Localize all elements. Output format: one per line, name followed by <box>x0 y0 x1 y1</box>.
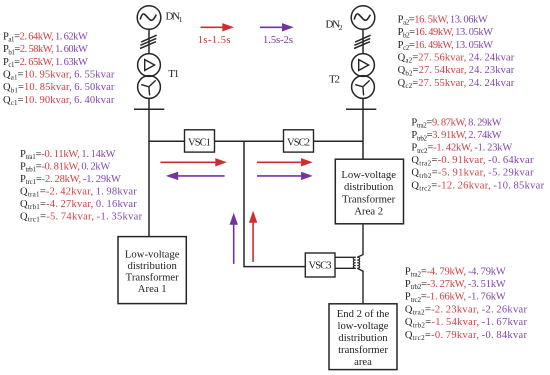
svg-text:1.5s-2s: 1.5s-2s <box>263 35 293 46</box>
power-flow purple arrow (VSC2 section, rightward) <box>257 172 313 180</box>
svg-text:Qtrc2=-12. 26kvar, -10. 85kvar: Qtrc2=-12. 26kvar, -10. 85kvar <box>411 180 544 192</box>
svg-text:Pc2=16. 49kW, 13. 05kW: Pc2=16. 49kW, 13. 05kW <box>398 40 494 52</box>
isolation transformer winding (right) <box>357 257 359 268</box>
three-phase slash marks (T1 feeder) <box>140 35 157 48</box>
svg-text:Ptrc2=-1. 42kW, -1. 23kW: Ptrc2=-1. 42kW, -1. 23kW <box>411 143 512 155</box>
svg-text:Pb2=16. 49kW, 13. 05kW: Pb2=16. 49kW, 13. 05kW <box>398 27 494 39</box>
wire Area 2 to isolation transformer <box>357 223 363 257</box>
svg-text:distribution: distribution <box>128 260 178 272</box>
svg-text:Pc1=2. 65kW, 1. 63kW: Pc1=2. 65kW, 1. 63kW <box>3 57 88 69</box>
VSC1 <box>185 130 215 152</box>
power-flow purple arrow (VSC1 section, leftward) <box>166 172 225 180</box>
svg-text:1s-1.5s: 1s-1.5s <box>198 35 231 46</box>
wire VSC3 output top <box>335 256 356 258</box>
box Low-voltage distribution Transformer Area 1 <box>118 237 186 304</box>
generator DN2 <box>351 6 375 30</box>
svg-text:Pa2=16. 5kW, 13. 06kW: Pa2=16. 5kW, 13. 06kW <box>398 14 488 26</box>
svg-text:Qb2=27. 54kvar, 24. 23kvar: Qb2=27. 54kvar, 24. 23kvar <box>398 65 515 77</box>
svg-text:low-voltage: low-voltage <box>337 320 388 332</box>
svg-text:Qa1=10. 95kvar, 6. 55kvar: Qa1=10. 95kvar, 6. 55kvar <box>3 69 115 81</box>
svg-text:Area 2: Area 2 <box>354 206 383 218</box>
wire DN1 to slashes to T1 <box>148 29 150 54</box>
svg-text:Low-voltage: Low-voltage <box>125 248 180 260</box>
wire T1 down to Area 1 <box>148 98 150 237</box>
svg-text:VSC3: VSC3 <box>309 261 332 272</box>
svg-text:Ptrc1=-2. 28kW, -1. 29kW: Ptrc1=-2. 28kW, -1. 29kW <box>20 174 121 186</box>
svg-text:Area 1: Area 1 <box>138 283 167 295</box>
svg-text:Ptra2=-4. 79kW, -4. 79kW: Ptra2=-4. 79kW, -4. 79kW <box>405 266 506 278</box>
svg-text:Pa1=2. 64kW, 1. 62kW: Pa1=2. 64kW, 1. 62kW <box>3 31 88 43</box>
svg-text:Low-voltage: Low-voltage <box>341 169 396 181</box>
svg-text:Qc1=10. 90kvar, 6. 40kvar: Qc1=10. 90kvar, 6. 40kvar <box>3 95 115 107</box>
transformer T1 (delta-wye) <box>138 54 161 99</box>
svg-text:T2: T2 <box>329 73 340 85</box>
svg-text:transformer: transformer <box>338 344 388 356</box>
VSC3 <box>305 253 335 277</box>
legend purple arrow 1.5s-2s <box>260 23 294 46</box>
svg-text:Ptrc2=-1. 66kW, -1. 76kW: Ptrc2=-1. 66kW, -1. 76kW <box>405 292 506 304</box>
VSC2 <box>284 130 314 152</box>
svg-text:distribution: distribution <box>344 181 394 193</box>
transformer T2 (delta-wye) <box>352 54 375 99</box>
svg-text:Qb1=10. 85kvar, 6. 50kvar: Qb1=10. 85kvar, 6. 50kvar <box>3 82 115 94</box>
legend red arrow 1s-1.5s <box>198 23 234 46</box>
box Low-voltage distribution Transformer Area 2 <box>335 159 403 224</box>
svg-text:Transformer: Transformer <box>126 272 179 284</box>
svg-text:Pb1=2. 58kW, 1. 60kW: Pb1=2. 58kW, 1. 60kW <box>3 44 88 56</box>
wire DN2 to slashes to T2 <box>362 29 364 54</box>
wire T2 down to Area 2 <box>362 98 364 159</box>
svg-text:Qa2=27. 56kvar, 24. 24kvar: Qa2=27. 56kvar, 24. 24kvar <box>398 52 515 64</box>
svg-text:area: area <box>354 356 372 368</box>
svg-text:distribution: distribution <box>338 332 388 344</box>
power-flow red arrow (VSC3 feeder, upward) <box>249 211 257 262</box>
svg-text:VSC2: VSC2 <box>287 137 310 148</box>
box End 2 of the low-voltage distribution transformer area <box>329 304 397 370</box>
busbar tick T2 <box>346 108 376 110</box>
wire VSC3 output bottom <box>335 267 356 269</box>
main AC tie line (bus1 to bus2) <box>148 140 363 142</box>
svg-text:End 2 of the: End 2 of the <box>337 308 390 320</box>
busbar tick T1 <box>134 108 164 110</box>
wire junction to VSC3 <box>244 141 305 266</box>
power-flow red arrow (VSC1 section, rightward) <box>160 158 227 166</box>
generator DN1 <box>137 6 161 30</box>
power-flow purple arrow (VSC3 feeder, upward) <box>230 213 238 264</box>
isolation transformer winding (left) <box>353 257 355 268</box>
svg-text:Qc2=27. 55kvar, 24. 24kvar: Qc2=27. 55kvar, 24. 24kvar <box>398 78 515 90</box>
power-flow red arrow (VSC2 section, rightward) <box>257 158 313 166</box>
wire isolation transformer to End 2 <box>357 268 363 304</box>
svg-text:Transformer: Transformer <box>342 193 395 205</box>
svg-text:VSC1: VSC1 <box>188 137 211 148</box>
three-phase slash marks (T2 feeder) <box>354 35 371 48</box>
svg-text:T1: T1 <box>168 68 179 80</box>
